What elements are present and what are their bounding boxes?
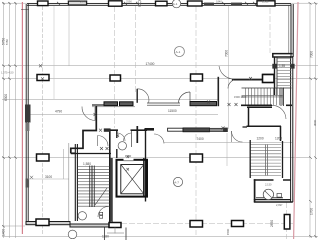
exterior right wall xyxy=(289,4,293,202)
svg-text:1400: 1400 xyxy=(2,229,6,236)
stairwell top wall xyxy=(71,153,111,155)
mid wall dark band x190-216 xyxy=(190,102,217,106)
interior columns row y=158 xyxy=(37,154,203,162)
svg-text:1700: 1700 xyxy=(310,208,314,215)
svg-text:11500: 11500 xyxy=(168,109,177,113)
exterior top wall xyxy=(27,3,291,5)
svg-text:1500 1500: 1500 1500 xyxy=(234,95,247,99)
upper-right stair shaft walls xyxy=(273,54,293,95)
mid wall with windows (left part) xyxy=(92,102,135,107)
svg-text:7400: 7400 xyxy=(197,137,204,141)
elevator shaft xyxy=(117,160,148,197)
door arc x231 xyxy=(232,131,243,142)
svg-text:2,997: 2,997 xyxy=(276,203,283,207)
svg-text:2590: 2590 xyxy=(126,0,132,4)
upper right room bottom wall y=80 with door xyxy=(219,66,273,89)
small box in lobby xyxy=(277,194,282,198)
svg-text:1200: 1200 xyxy=(257,137,264,141)
svg-text:1180: 1180 xyxy=(102,235,109,239)
upper-right stair lower walls xyxy=(241,105,292,119)
svg-text:5750: 5750 xyxy=(5,39,9,45)
red boundary line left xyxy=(21,2,23,234)
upper-right stair steps vertical flight xyxy=(278,59,292,86)
stairwell left wall xyxy=(75,144,77,221)
exterior bottom wall left part xyxy=(26,222,121,228)
door arcs double xyxy=(219,66,234,89)
mid-left room bubble xyxy=(173,177,182,186)
svg-text:1,55: 1,55 xyxy=(279,64,285,68)
right lower stair steps xyxy=(251,145,282,176)
exterior left wall xyxy=(26,4,28,223)
red boundary line right (slanted) xyxy=(294,2,298,239)
top wall small pier segments xyxy=(204,3,242,6)
stair bottom door arc xyxy=(98,207,109,218)
column on wall y=78 right xyxy=(263,75,275,83)
wall stub x218 down xyxy=(217,77,219,106)
svg-text:3000: 3000 xyxy=(313,119,317,126)
svg-text:1840: 1840 xyxy=(216,0,222,4)
bottom colonnade columns xyxy=(36,219,244,227)
stair up arrow xyxy=(95,188,107,205)
svg-text:A-1: A-1 xyxy=(173,2,178,6)
svg-text:2850: 2850 xyxy=(270,220,274,227)
svg-text:A-7: A-7 xyxy=(174,180,179,184)
short line below T pier xyxy=(114,228,116,234)
core bubble circle xyxy=(118,142,126,150)
core wc door arcs xyxy=(117,133,131,141)
below lobby pier xyxy=(284,215,290,230)
tiny texts above top wall xyxy=(80,0,269,4)
svg-text:1,560: 1,560 xyxy=(262,0,269,4)
tiny dimension cross ticks xyxy=(39,64,252,170)
left stairwell steps xyxy=(78,167,110,207)
mini circles on top wall xyxy=(138,0,141,3)
svg-text:1500: 1500 xyxy=(226,228,230,235)
svg-text:17400: 17400 xyxy=(146,62,155,66)
right room x247-293 y107-126 xyxy=(247,107,282,141)
svg-text:5750: 5750 xyxy=(2,38,6,45)
svg-text:6300: 6300 xyxy=(4,94,8,101)
shaft wall piers xyxy=(272,64,277,69)
stair entry door arc xyxy=(98,136,109,147)
svg-text:2,150: 2,150 xyxy=(265,183,272,187)
svg-text:3100: 3100 xyxy=(45,175,52,179)
small dim line bottom-left room xyxy=(28,178,69,180)
svg-text:1,580: 1,580 xyxy=(83,162,91,166)
stairwell right wall / core wall xyxy=(110,129,112,223)
top wall columns xyxy=(38,1,276,6)
top wall wide pier xyxy=(68,1,86,5)
stair bubble circle xyxy=(78,212,86,220)
svg-text:7000: 7000 xyxy=(310,51,314,58)
core top-right wall row y=129.5 x154-219 xyxy=(154,128,228,144)
right stair walls xyxy=(250,140,282,178)
svg-text:4790: 4790 xyxy=(55,109,62,113)
left wall pilaster xyxy=(25,105,31,123)
door leaf+arc west of band xyxy=(82,107,95,121)
right lobby room xyxy=(254,179,293,202)
bottom-left room circle bubble xyxy=(68,230,77,239)
core top wall row y=130 xyxy=(104,128,154,131)
core wall door gap xyxy=(118,129,131,132)
dimension tick marks top xyxy=(57,2,256,5)
svg-text:1200: 1200 xyxy=(275,137,282,141)
lobby circle symbol xyxy=(263,189,273,199)
door arc at x182 xyxy=(179,92,191,103)
wall below elevator to bottom xyxy=(110,194,112,222)
short vertical dim line x227 xyxy=(226,133,228,166)
grid axis dashed lines xyxy=(43,6,294,239)
core interior partition walls xyxy=(117,126,146,202)
stair stringer xyxy=(90,166,95,208)
jog wall to right room xyxy=(243,126,248,128)
door leaf + arc at x136 xyxy=(137,89,149,103)
small texts xyxy=(45,62,285,238)
svg-text:A-1: A-1 xyxy=(176,50,181,54)
interior thin wall line x68.8 xyxy=(68,143,70,222)
door hinge squares xyxy=(100,212,103,215)
core: wall zigzag left of stair xyxy=(71,106,97,153)
svg-text:2640: 2640 xyxy=(80,0,86,4)
svg-text:1,375-4,50: 1,375-4,50 xyxy=(1,71,14,75)
interior columns row y=78 xyxy=(37,74,274,82)
bottom wall T pier xyxy=(109,223,121,228)
elevator door gap xyxy=(124,158,134,161)
grid axis solid thin lines xyxy=(54,6,228,129)
bottom exterior small stair xyxy=(105,228,127,240)
upper-right stair steps horizontal flight xyxy=(242,88,292,107)
svg-text:7000: 7000 xyxy=(224,50,228,57)
mid wall right part y=102 xyxy=(147,103,180,105)
axis bubble top xyxy=(172,0,180,8)
